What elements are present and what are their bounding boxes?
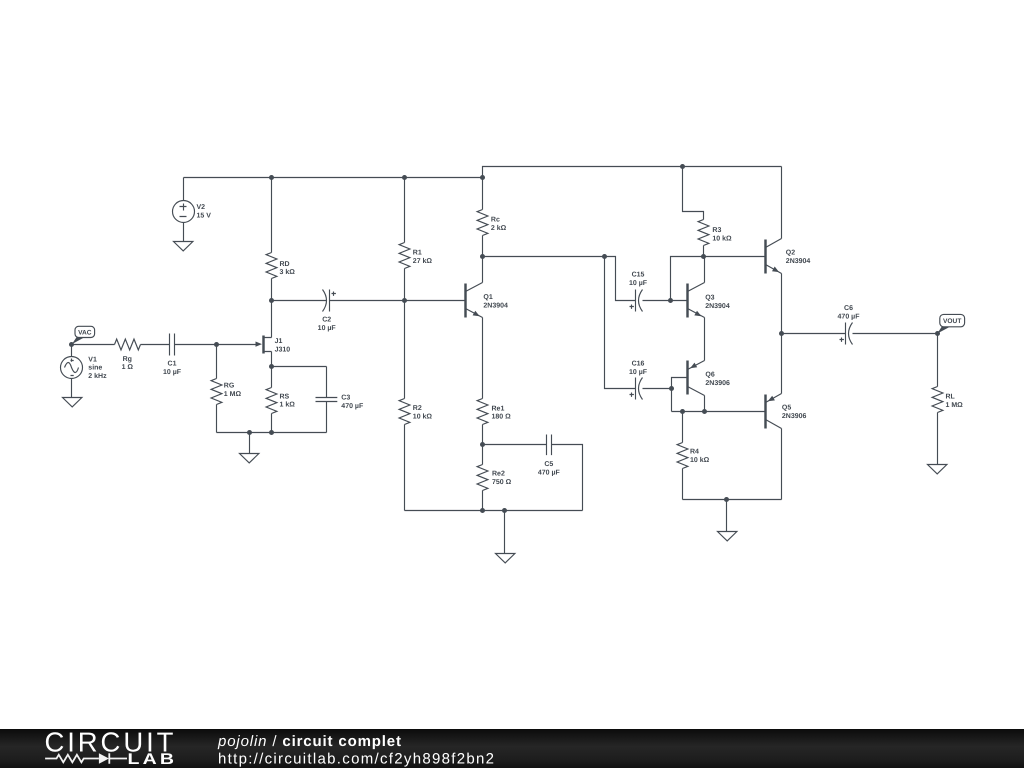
svg-text:R1: R1	[413, 250, 422, 257]
svg-text:LAB: LAB	[128, 751, 178, 768]
node C15-Q3-riser	[668, 298, 673, 303]
node gate-RG	[214, 342, 219, 347]
resistor RD	[266, 178, 295, 301]
node output emitters	[779, 331, 784, 336]
wire gnd stub output	[726, 500, 728, 532]
resistor R3	[683, 167, 733, 257]
svg-text:10 kΩ: 10 kΩ	[690, 456, 710, 464]
node C16-Q6	[669, 386, 674, 391]
net flag VOUT	[937, 314, 964, 333]
svg-text:10 µF: 10 µF	[629, 280, 648, 287]
svg-text:RG: RG	[224, 383, 235, 390]
svg-text:2N3906: 2N3906	[782, 413, 807, 420]
svg-text:1 MΩ: 1 MΩ	[224, 391, 242, 398]
svg-text:RS: RS	[280, 393, 290, 400]
svg-text:R4: R4	[690, 449, 699, 456]
resistor Rg	[115, 339, 141, 371]
wire Q2 collector	[781, 167, 783, 239]
svg-text:pojolin / circuit complet: pojolin / circuit complet	[217, 733, 402, 750]
wire input to Rg	[72, 344, 115, 346]
wire Q1 collector	[482, 257, 484, 283]
node R3-Q3coll	[701, 254, 706, 259]
svg-text:470 µF: 470 µF	[838, 314, 861, 321]
svg-text:Q6: Q6	[705, 372, 714, 379]
svg-text:C16: C16	[632, 360, 645, 367]
wire gnd stub stage1	[249, 433, 251, 454]
svg-text:1 kΩ: 1 kΩ	[280, 401, 296, 409]
wire Rg to C1	[141, 344, 170, 346]
node rail-Rc	[480, 175, 485, 180]
svg-text:1 Ω: 1 Ω	[122, 364, 134, 371]
capacitor C5	[538, 435, 561, 477]
svg-text:C5: C5	[544, 461, 553, 468]
svg-text:J1: J1	[275, 338, 283, 345]
svg-text:C3: C3	[341, 394, 350, 401]
node Re2 bottom	[480, 508, 485, 513]
svg-text:15 V: 15 V	[197, 213, 212, 220]
ground below RL	[928, 465, 947, 474]
svg-text:J310: J310	[275, 347, 291, 354]
footer bar	[0, 729, 1024, 768]
wire drain to C2	[272, 300, 327, 302]
node RD-C2-drain	[269, 298, 274, 303]
wire output stage bottom	[683, 499, 782, 501]
wire C5 right leg	[552, 445, 583, 511]
svg-text:10 µF: 10 µF	[318, 325, 337, 332]
node rail-R1	[402, 175, 407, 180]
svg-text:V2: V2	[197, 204, 206, 211]
wire Q5 emitter	[781, 334, 783, 394]
node source-RS	[269, 364, 274, 369]
capacitor C3	[316, 367, 364, 433]
wire riser to R3 net	[671, 257, 766, 301]
svg-text:C2: C2	[322, 316, 331, 323]
svg-text:10 µF: 10 µF	[163, 369, 182, 376]
svg-text:750 Ω: 750 Ω	[492, 479, 512, 486]
wire Q5 collector	[781, 429, 783, 500]
svg-text:Rc: Rc	[491, 217, 500, 224]
svg-text:10 kΩ: 10 kΩ	[712, 235, 732, 243]
wire Q1 emitter	[482, 318, 484, 399]
wire Q3-Q6 emitters	[704, 318, 706, 361]
ground stage2	[496, 554, 515, 563]
node R1-R2-base	[402, 298, 407, 303]
ground below V1	[63, 398, 82, 407]
resistor R4	[677, 412, 710, 500]
wire driver base line	[672, 411, 766, 413]
svg-text:Q5: Q5	[782, 405, 791, 412]
svg-text:VOUT: VOUT	[943, 318, 961, 325]
resistor Re1	[477, 399, 511, 445]
svg-text:2N3904: 2N3904	[483, 303, 508, 310]
wire stage2 bottom	[405, 510, 583, 512]
svg-text:2N3904: 2N3904	[786, 258, 811, 265]
svg-text:180 Ω: 180 Ω	[492, 414, 512, 421]
svg-text:10 µF: 10 µF	[629, 369, 648, 376]
capacitor C1	[163, 334, 182, 377]
node RS bottom	[269, 430, 274, 435]
wire mid net	[483, 257, 636, 301]
transistor Q3	[688, 283, 730, 318]
svg-text:Q1: Q1	[483, 294, 492, 301]
wire out to C6	[782, 333, 846, 335]
svg-text:Rg: Rg	[123, 356, 132, 363]
wire C1 to gate	[175, 344, 257, 346]
svg-text:3 kΩ: 3 kΩ	[280, 268, 296, 276]
node Rc-Q1-mid	[480, 254, 485, 259]
svg-text:470 µF: 470 µF	[341, 403, 364, 410]
svg-text:C6: C6	[844, 305, 853, 312]
node rail-RD	[269, 175, 274, 180]
transistor J1	[256, 336, 291, 354]
svg-text:R2: R2	[413, 405, 422, 412]
node C16 drop	[602, 254, 607, 259]
svg-text:C1: C1	[168, 361, 177, 368]
svg-text:Re1: Re1	[492, 405, 505, 412]
ground stage1	[240, 454, 259, 463]
transistor Q2	[766, 239, 811, 274]
svg-text:10 kΩ: 10 kΩ	[413, 412, 433, 420]
svg-text:Q2: Q2	[786, 250, 795, 257]
node gnd tap stage1	[247, 430, 252, 435]
ground output stage	[718, 532, 737, 541]
svg-text:470 µF: 470 µF	[538, 469, 561, 476]
wire stage1 bottom	[217, 432, 327, 434]
ground below V2	[174, 242, 193, 251]
svg-text:V1: V1	[88, 356, 97, 363]
wire C6 to VOUT	[853, 333, 938, 335]
wire supply rail	[184, 167, 782, 178]
voltage source V1	[61, 345, 108, 398]
wire Re to C5	[483, 444, 547, 446]
wire Q6 collector	[704, 396, 706, 412]
voltage source V2	[173, 178, 212, 242]
resistor Re2	[477, 445, 512, 511]
svg-text:Re2: Re2	[492, 471, 505, 478]
node gnd tap stage2	[502, 508, 507, 513]
node gnd tap output	[724, 497, 729, 502]
resistor RS	[266, 367, 295, 433]
svg-text:VAC: VAC	[78, 329, 92, 336]
wire Q2 emitter	[781, 274, 783, 334]
resistor R1	[399, 178, 432, 301]
svg-text:http://circuitlab.com/cf2yh898: http://circuitlab.com/cf2yh898f2bn2	[218, 751, 495, 768]
svg-text:2N3904: 2N3904	[705, 303, 730, 310]
capacitor C2	[318, 290, 337, 332]
wire source to C3	[272, 366, 327, 368]
node rail-R3	[680, 164, 685, 169]
svg-text:sine: sine	[88, 364, 102, 372]
resistor RG	[211, 345, 241, 433]
wire C16 to Q6 base	[643, 388, 672, 390]
wire Q6 base jog	[672, 378, 688, 389]
wire Q3 collector	[704, 257, 706, 283]
transistor Q5	[766, 394, 807, 429]
wire C16 drop	[605, 257, 636, 389]
svg-text:RL: RL	[946, 393, 956, 400]
wire Q6 node down	[671, 389, 673, 412]
net flag VAC	[72, 326, 95, 344]
wire J1 source down	[271, 352, 273, 367]
svg-text:RD: RD	[280, 261, 290, 268]
resistor R2	[399, 301, 432, 511]
svg-text:2N3906: 2N3906	[705, 380, 730, 387]
CircuitLab logo resistor-diode glyph	[45, 753, 127, 764]
node VOUT	[935, 331, 940, 336]
wire gnd stub stage2	[504, 511, 506, 554]
resistor Rc	[477, 178, 507, 257]
svg-text:27 kΩ: 27 kΩ	[413, 257, 433, 265]
svg-text:Q3: Q3	[705, 295, 714, 302]
transistor Q6	[688, 361, 731, 396]
capacitor C15	[629, 272, 648, 312]
transistor Q1	[466, 283, 509, 318]
resistor RL	[932, 334, 963, 465]
node Re1-Re2-C5	[480, 442, 485, 447]
svg-text:1 MΩ: 1 MΩ	[946, 402, 964, 409]
svg-text:C15: C15	[632, 272, 645, 279]
svg-text:2 kHz: 2 kHz	[88, 372, 107, 380]
node input	[69, 342, 74, 347]
wire C2 to Q1 base	[330, 300, 466, 302]
node R4 tap	[680, 409, 685, 414]
capacitor C16	[629, 360, 648, 399]
svg-text:2 kΩ: 2 kΩ	[491, 224, 507, 232]
wire J1 drain up	[271, 301, 273, 338]
node Q6coll-line	[702, 409, 707, 414]
capacitor C6	[838, 305, 861, 344]
svg-text:R3: R3	[712, 227, 721, 234]
wire C15 to Q3 base	[643, 300, 688, 302]
